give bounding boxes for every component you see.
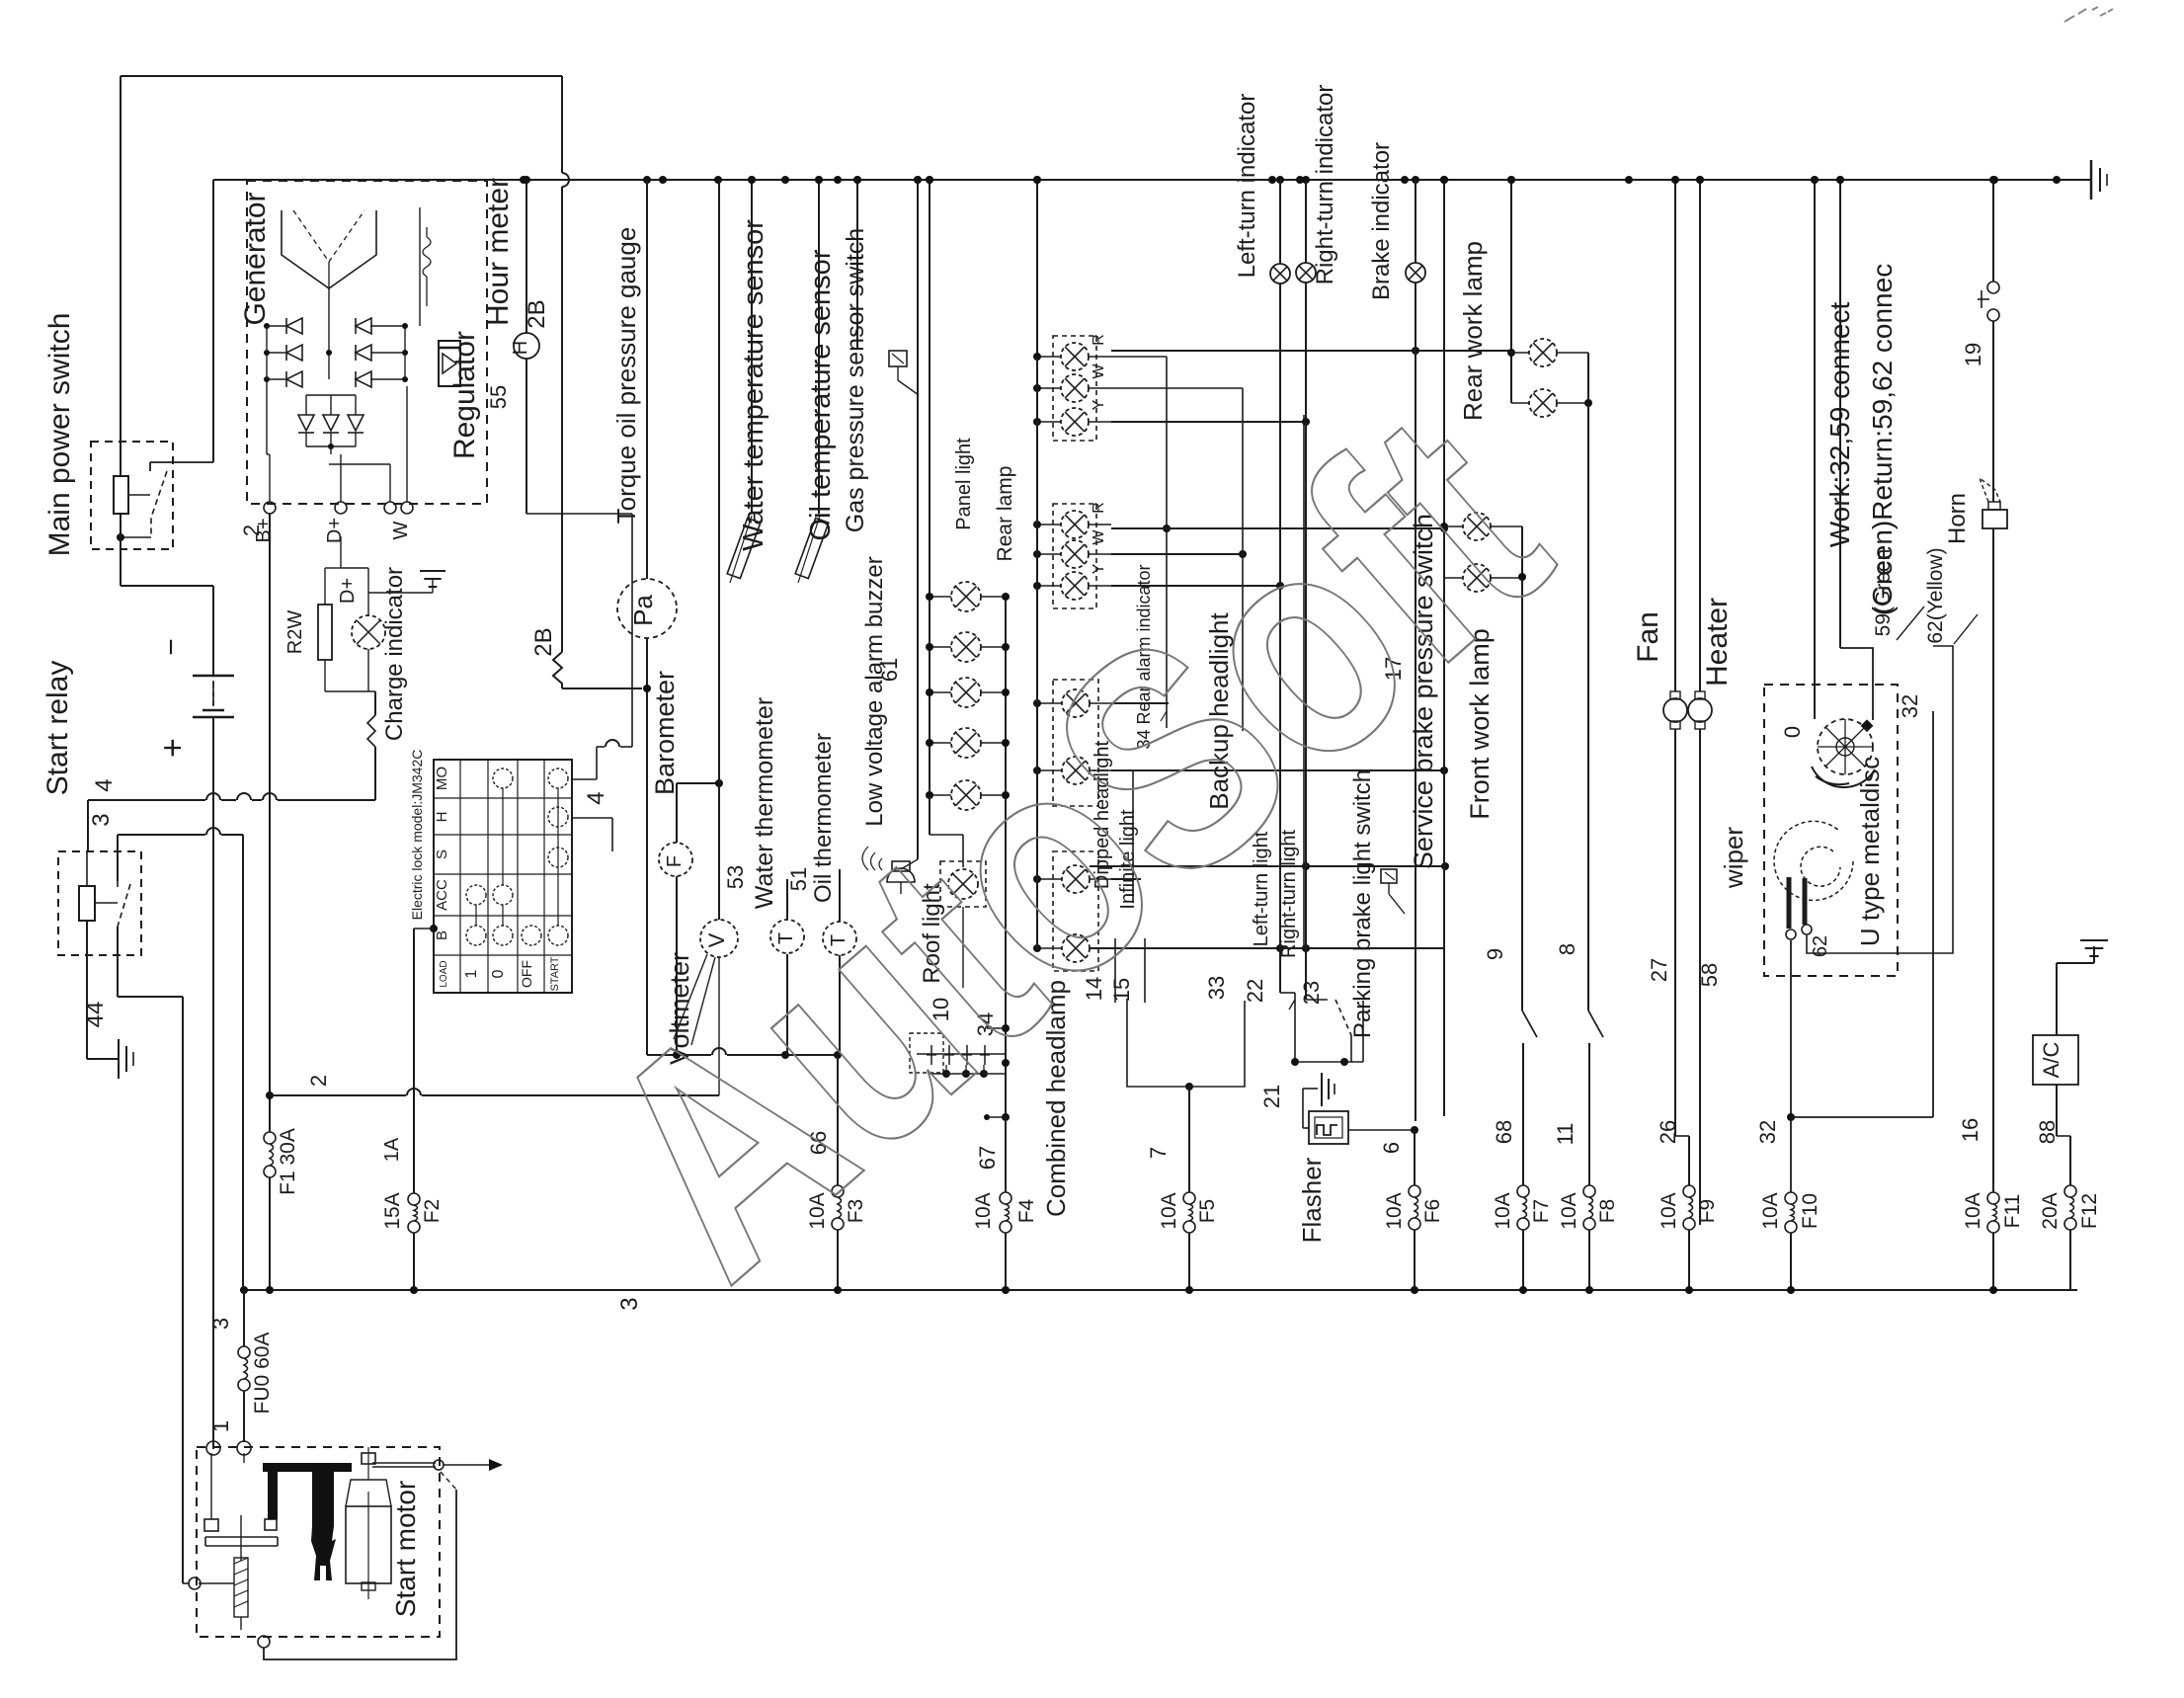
svg-text:4: 4 [583, 791, 609, 804]
svg-text:Start relay: Start relay [41, 661, 74, 796]
svg-text:21: 21 [1259, 1085, 1284, 1108]
svg-text:Torque oil pressure gauge: Torque oil pressure gauge [611, 227, 641, 525]
svg-text:3: 3 [616, 1297, 643, 1310]
svg-text:Panel light: Panel light [953, 438, 975, 530]
svg-text:W: W [1091, 529, 1107, 545]
svg-text:Y: Y [1091, 399, 1107, 410]
svg-text:8: 8 [1555, 943, 1579, 955]
svg-text:10A: 10A [1492, 1192, 1514, 1229]
svg-text:+: + [154, 738, 192, 758]
svg-text:FU0 60A: FU0 60A [251, 1333, 274, 1415]
svg-text:D+: D+ [324, 518, 346, 543]
svg-text:7: 7 [1146, 1147, 1171, 1159]
svg-text:10A: 10A [1383, 1192, 1406, 1229]
svg-text:F6: F6 [1421, 1199, 1444, 1224]
svg-text:3: 3 [88, 813, 115, 826]
svg-text:F4: F4 [1015, 1198, 1038, 1223]
svg-text:26: 26 [1656, 1120, 1680, 1144]
svg-text:6: 6 [1379, 1142, 1404, 1154]
svg-text:1A: 1A [381, 1137, 403, 1162]
svg-text:15A: 15A [381, 1192, 404, 1229]
svg-text:11: 11 [1553, 1123, 1577, 1146]
svg-text:3: 3 [208, 1318, 233, 1330]
svg-text:61: 61 [877, 658, 902, 682]
svg-text:58: 58 [1697, 963, 1722, 987]
svg-text:22: 22 [1243, 979, 1267, 1003]
svg-text:44: 44 [82, 1002, 109, 1028]
svg-text:START: START [549, 956, 561, 991]
svg-text:10A: 10A [1658, 1192, 1680, 1229]
svg-text:B+: B+ [253, 518, 275, 542]
svg-text:Rear lamp: Rear lamp [994, 466, 1016, 562]
svg-text:H: H [434, 812, 450, 823]
svg-text:1: 1 [463, 969, 480, 978]
svg-text:R2W: R2W [284, 610, 306, 655]
svg-text:MO: MO [434, 767, 450, 790]
svg-text:4: 4 [91, 778, 118, 791]
svg-text:10A: 10A [1158, 1192, 1180, 1229]
svg-text:F1 30A: F1 30A [277, 1128, 299, 1195]
svg-text:10A: 10A [1962, 1192, 1984, 1229]
svg-text:D+: D+ [337, 578, 359, 604]
svg-text:W: W [390, 521, 412, 539]
svg-text:Main power switch: Main power switch [43, 313, 76, 557]
svg-text:LOAD: LOAD [439, 960, 449, 987]
svg-text:Barometer: Barometer [650, 671, 680, 795]
svg-text:U type metaldisc: U type metaldisc [1855, 757, 1885, 946]
svg-text:2B: 2B [530, 627, 557, 656]
svg-text:Brake indicator: Brake indicator [1368, 142, 1395, 300]
svg-text:A/C: A/C [2039, 1042, 2063, 1079]
svg-text:F12: F12 [2078, 1193, 2101, 1229]
svg-text:Electric lock model:JM342C: Electric lock model:JM342C [409, 750, 425, 921]
svg-text:68: 68 [1492, 1120, 1516, 1144]
svg-text:Generator: Generator [239, 192, 272, 325]
svg-text:F8: F8 [1596, 1199, 1619, 1224]
svg-text:Rear work lamp: Rear work lamp [1458, 241, 1488, 421]
svg-text:Oil temperature sensor: Oil temperature sensor [805, 249, 837, 540]
svg-text:Gas pressure sensor switch: Gas pressure sensor switch [842, 228, 869, 532]
svg-text:55: 55 [486, 385, 511, 409]
svg-text:62(Yellow): 62(Yellow) [1924, 547, 1947, 643]
svg-text:R: R [1091, 334, 1107, 346]
svg-text:W: W [1091, 364, 1107, 379]
svg-text:wiper: wiper [1719, 827, 1748, 889]
svg-text:Horn: Horn [1944, 493, 1971, 544]
svg-text:Y: Y [1091, 563, 1107, 574]
svg-text:Hour meter: Hour meter [482, 178, 515, 326]
svg-text:F2: F2 [421, 1199, 444, 1224]
svg-text:23: 23 [1299, 981, 1324, 1005]
svg-text:(Green)Return:59,62 connec: (Green)Return:59,62 connec [1867, 264, 1898, 615]
svg-text:F5: F5 [1196, 1199, 1219, 1224]
svg-text:F11: F11 [2001, 1194, 2024, 1229]
svg-text:0: 0 [1780, 726, 1805, 738]
svg-text:Right-turn indicator: Right-turn indicator [1312, 85, 1338, 285]
svg-text:Heater: Heater [1701, 598, 1734, 687]
svg-text:Pa: Pa [628, 595, 658, 626]
svg-text:F: F [664, 855, 686, 867]
svg-text:F10: F10 [1799, 1193, 1821, 1229]
svg-text:0: 0 [490, 969, 507, 978]
svg-text:−: − [155, 638, 188, 656]
svg-text:19: 19 [1961, 343, 1985, 366]
svg-text:32: 32 [1755, 1120, 1780, 1144]
svg-text:2: 2 [306, 1075, 331, 1087]
svg-text:R: R [1091, 502, 1107, 514]
svg-text:10A: 10A [1759, 1192, 1782, 1229]
svg-text:S: S [434, 849, 450, 859]
svg-text:B: B [434, 930, 450, 940]
svg-text:10A: 10A [972, 1192, 995, 1229]
svg-text:Left-turn indicator: Left-turn indicator [1234, 94, 1260, 279]
svg-text:88: 88 [2035, 1120, 2060, 1144]
svg-text:33: 33 [1204, 976, 1229, 1000]
svg-text:2B: 2B [524, 299, 550, 328]
svg-text:9: 9 [1483, 948, 1507, 960]
svg-text:32: 32 [1898, 694, 1922, 718]
svg-text:F9: F9 [1696, 1199, 1719, 1224]
svg-text:Water temperature sensor: Water temperature sensor [738, 219, 769, 551]
svg-text:OFF: OFF [519, 960, 534, 988]
svg-text:H: H [510, 341, 531, 355]
svg-text:F7: F7 [1530, 1199, 1553, 1224]
svg-text:20A: 20A [2039, 1192, 2062, 1229]
svg-text:Start motor: Start motor [390, 1481, 421, 1617]
svg-text:16: 16 [1958, 1118, 1982, 1142]
svg-text:Flasher: Flasher [1297, 1157, 1327, 1243]
svg-text:Regulator: Regulator [448, 331, 481, 459]
svg-text:Fan: Fan [1632, 611, 1664, 663]
svg-text:10A: 10A [1558, 1192, 1580, 1229]
svg-text:ACC: ACC [434, 879, 450, 911]
svg-text:1: 1 [208, 1420, 233, 1432]
svg-text:Work:32,59 connect: Work:32,59 connect [1824, 302, 1855, 548]
svg-text:53: 53 [723, 865, 748, 889]
svg-text:27: 27 [1647, 958, 1671, 982]
